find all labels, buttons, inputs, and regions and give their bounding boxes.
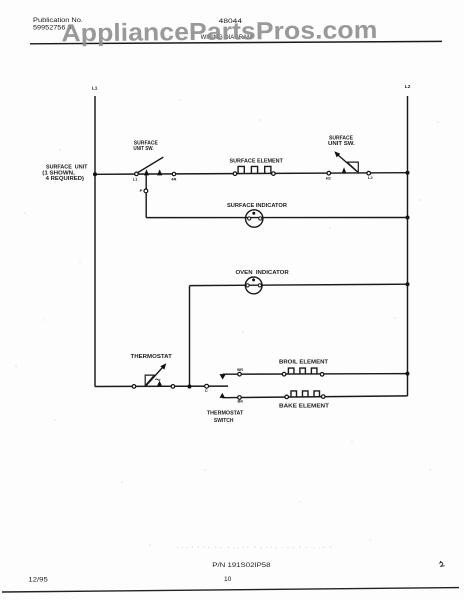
svg-text:L2: L2 bbox=[368, 175, 373, 180]
svg-text:SWITCH: SWITCH bbox=[214, 418, 234, 424]
svg-text:12/95: 12/95 bbox=[28, 576, 48, 583]
svg-text:OVEN INDICATOR: OVEN INDICATOR bbox=[236, 270, 290, 276]
svg-text:4 REQUIRED): 4 REQUIRED) bbox=[46, 176, 85, 182]
svg-text:UNIT SW.: UNIT SW. bbox=[133, 146, 154, 152]
svg-text:L2: L2 bbox=[405, 84, 411, 90]
svg-text:BR: BR bbox=[237, 367, 243, 372]
svg-text:UNIT SW.: UNIT SW. bbox=[328, 141, 356, 147]
svg-text:BAKE ELEMENT: BAKE ELEMENT bbox=[279, 404, 329, 410]
svg-text:4R: 4R bbox=[171, 176, 176, 181]
svg-text:BROIL ELEMENT: BROIL ELEMENT bbox=[279, 360, 328, 366]
svg-text:P: P bbox=[140, 188, 143, 193]
svg-text:THERMOSTAT: THERMOSTAT bbox=[131, 354, 172, 360]
svg-text:L1: L1 bbox=[92, 86, 98, 92]
svg-text:P/N 191S02IP58: P/N 191S02IP58 bbox=[212, 562, 271, 569]
svg-text:H2: H2 bbox=[326, 175, 332, 180]
svg-text:L1: L1 bbox=[133, 177, 138, 182]
svg-text:10: 10 bbox=[224, 576, 232, 583]
svg-text:SURFACE ELEMENT: SURFACE ELEMENT bbox=[230, 158, 283, 164]
svg-text:AppliancePartsPros.com: AppliancePartsPros.com bbox=[61, 17, 377, 47]
svg-text:SURFACE INDICATOR: SURFACE INDICATOR bbox=[227, 203, 287, 209]
svg-text:THERMOSTAT: THERMOSTAT bbox=[207, 411, 243, 417]
